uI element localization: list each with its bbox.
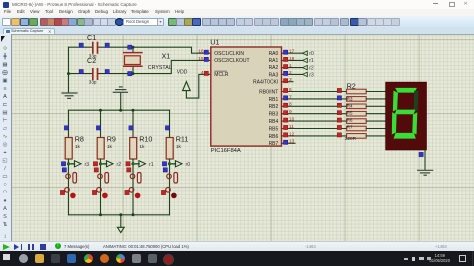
window title bar: [0, 0, 474, 9]
pin state SW1 bottom: [161, 190, 165, 194]
segment e (lit): [392, 112, 397, 134]
pin state R10 top: [129, 126, 133, 130]
pin state U1.8 RB2: [284, 103, 288, 107]
pin state R9 bottom: [93, 162, 97, 166]
pin state SW3 bottom: [92, 190, 96, 194]
pin state U1.11 RB5: [284, 125, 288, 129]
pin state SW4 top: [62, 168, 66, 172]
main schematic area: [0, 34, 474, 241]
menu bar: [0, 9, 474, 16]
segment a (lit): [395, 88, 417, 93]
pin state U1.16: [204, 50, 208, 54]
pin state R2.d: [337, 111, 341, 115]
button SW2 (R10 column): [129, 173, 141, 193]
toolbar: [0, 16, 474, 28]
wire R9 to button: [100, 159, 102, 215]
segment c (lit): [412, 112, 417, 134]
node top rail junctions: [99, 109, 102, 112]
button SW3 (R9 column): [97, 173, 109, 193]
node C2/left-wire junction: [67, 72, 70, 75]
node label r3 tag: [303, 72, 308, 76]
wire RB2: [282, 105, 347, 107]
pin state R2.f: [337, 125, 341, 129]
node r0 branch junction: [168, 162, 171, 165]
node state C1 left: [79, 43, 83, 47]
wire left vertical to ground: [68, 47, 70, 92]
crystal X1: [124, 47, 142, 73]
pin state R2.a: [337, 88, 341, 92]
pin state R11 bottom: [162, 162, 166, 166]
pin state U1.1 RA2: [284, 65, 288, 69]
pin state R8 bottom: [61, 162, 65, 166]
segment d (lit): [394, 133, 416, 139]
pin state U1.15: [204, 57, 208, 61]
resistor R11: [166, 138, 173, 160]
node label r2 tag: [101, 163, 107, 165]
wire R8 to button SW1: [68, 159, 70, 215]
wire bottom ground rail: [69, 214, 170, 216]
pin state R11 top: [165, 126, 169, 130]
wire VDD top rail for buttons: [69, 109, 170, 111]
pin state U1.17 RA0: [284, 50, 288, 54]
resistor R9 column wire top: [100, 110, 102, 137]
node state C2 right: [105, 70, 109, 74]
wire R11 to button: [169, 159, 171, 215]
pin state U1.7 RB1: [284, 96, 288, 100]
wire OSC1 net: C1 right to U1 pin16: [69, 47, 211, 53]
pin state U1.9 RB3: [284, 111, 288, 115]
node label r2 tag: [303, 65, 308, 69]
capacitor C2: [93, 69, 98, 79]
pin state R10 bottom: [126, 162, 130, 166]
node label r1 tag: [133, 163, 139, 165]
node state crystal bottom: [128, 72, 132, 76]
wire RA1 to label r1: [282, 59, 303, 61]
status bar: [0, 241, 474, 252]
node crystal top junction: [132, 46, 135, 49]
wire RA2 to label r2: [282, 67, 303, 69]
pin state R8 top: [64, 126, 68, 130]
node label r1 tag: [303, 58, 308, 62]
wire OSC2 net: C2 right to U1 pin15: [69, 60, 211, 73]
IC U1 PIC16F84A body: [211, 47, 282, 146]
pin state R2.e: [337, 118, 341, 122]
node crystal bottom junction: [132, 72, 135, 75]
node label r0 tag: [170, 163, 176, 165]
pin state R9 top: [96, 126, 100, 130]
pin state R2.g: [337, 133, 341, 137]
7-segment display body: [386, 82, 427, 150]
pin stubs U1 (red pin lines): [204, 53, 290, 143]
node r2 branch junction: [99, 162, 102, 165]
wire RB1: [282, 98, 347, 100]
wire RA0 to label r0: [282, 52, 303, 54]
Windows taskbar: [0, 251, 474, 266]
node state C2 left: [79, 70, 83, 74]
wire display common to ground: [424, 150, 426, 170]
node bottom rail junctions: [99, 213, 102, 216]
wire R2 outputs to display segments: [366, 92, 386, 136]
resistor R10: [130, 138, 137, 160]
wire RB5: [282, 128, 347, 130]
wire RA3 to label r3: [282, 73, 303, 75]
segment f (lit): [393, 91, 398, 112]
pin state SW4 bottom: [60, 190, 64, 194]
pin state U1.13 RB7: [284, 140, 288, 144]
resistor R8 column wire top: [68, 110, 70, 137]
tab bar: [0, 27, 474, 34]
pin state U1.3 RA4: [284, 79, 288, 83]
pin state SW2 top: [127, 168, 131, 172]
node label r3 tag: [69, 163, 75, 165]
power VDD terminal: [183, 82, 191, 91]
node state C1 right: [105, 43, 109, 47]
wire RB3: [282, 113, 347, 115]
pin state U1.4: [204, 71, 208, 75]
ground (below display): [418, 170, 433, 175]
ground (arrow terminal below bottom rail): [117, 215, 124, 233]
resistor R9: [97, 138, 104, 160]
pin RA4 stub: [282, 81, 294, 83]
pin state SW1 top: [163, 168, 167, 172]
button SW1 (R11 column, pressed): [166, 173, 178, 193]
segment g (lit): [395, 110, 416, 115]
pin state SW3 top: [94, 168, 98, 172]
pin state U1.6 RB0: [284, 88, 288, 92]
resistor R10 column wire top: [132, 110, 134, 137]
pin state U1.18 RA1: [284, 57, 288, 61]
wire R10 to button: [132, 159, 134, 215]
segment b (unlit): [414, 91, 419, 112]
wire RB0 to resistor pack: [282, 91, 347, 93]
ground (left, near C1/C2): [62, 93, 77, 98]
ground (flipped, feeding top rail): [113, 87, 127, 110]
wire RB6: [282, 135, 347, 137]
wire MCLR to VDD: [186, 74, 210, 98]
pin state R2.b: [337, 96, 341, 100]
resistor pack R2 (7 elements 220R): [347, 89, 367, 138]
pin RB7 stub: [282, 142, 296, 144]
pin state U1.2 RA3: [284, 71, 288, 75]
node state crystal top: [128, 45, 132, 49]
pin state display common: [419, 152, 423, 156]
wire RB4: [282, 120, 347, 122]
node r3 branch junction: [67, 162, 70, 165]
node r1 branch junction: [131, 162, 134, 165]
capacitor C1: [93, 43, 98, 53]
resistor R8: [65, 138, 72, 160]
button SW4 (R8 column): [65, 173, 77, 193]
resistor R11 column wire top: [169, 110, 171, 137]
pin state SW2 bottom: [125, 190, 129, 194]
pin state U1.12 RB6: [284, 133, 288, 137]
pin state R2.c: [337, 103, 341, 107]
pin state U1.10 RB4: [284, 118, 288, 122]
node label r0 tag: [303, 51, 308, 55]
